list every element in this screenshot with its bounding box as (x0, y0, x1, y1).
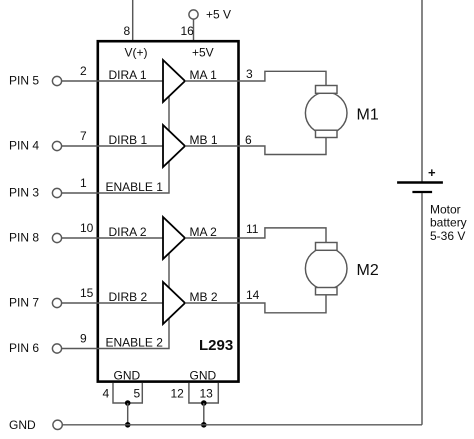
svg-text:M1: M1 (357, 107, 379, 124)
svg-text:DIRB 1: DIRB 1 (109, 133, 148, 147)
motor M2 brush tab top (316, 243, 338, 251)
motor M1 brush tab bottom (316, 130, 338, 137)
wire MB2 output (185, 302, 239, 304)
wire pin16 to +5V terminal (193, 19, 195, 41)
svg-text:10: 10 (80, 221, 94, 235)
svg-text:V(+): V(+) (125, 46, 148, 60)
svg-text:DIRA 1: DIRA 1 (109, 68, 147, 82)
svg-text:PIN 4: PIN 4 (9, 139, 39, 153)
svg-text:+: + (428, 165, 436, 180)
svg-text:5: 5 (134, 387, 141, 401)
wire ground bus (62, 424, 422, 426)
motor M2 body (305, 248, 347, 290)
svg-text:MA 1: MA 1 (190, 68, 218, 82)
junction dot staple2 on bus (201, 422, 207, 428)
terminal +5V circle (189, 10, 198, 19)
svg-text:GND: GND (9, 418, 36, 432)
svg-text:L293: L293 (199, 337, 233, 354)
svg-text:PIN 5: PIN 5 (9, 74, 39, 88)
svg-text:9: 9 (80, 332, 87, 346)
svg-text:2: 2 (80, 64, 87, 78)
wire staple1 to ground bus (127, 403, 129, 425)
buffer amplifier 1 (DIRA1) (163, 60, 185, 102)
wire MA2 output (185, 237, 239, 239)
svg-text:3: 3 (246, 67, 253, 81)
battery BT1 negative plate (412, 191, 432, 193)
wire GND staple pins 12-13 (189, 383, 218, 403)
svg-text:14: 14 (246, 288, 260, 302)
svg-text:battery: battery (430, 216, 467, 230)
wire output pin 3 to motor M1 (239, 71, 326, 86)
svg-text:PIN 6: PIN 6 (9, 341, 39, 355)
motor M1 body (305, 92, 347, 134)
svg-text:PIN 7: PIN 7 (9, 296, 39, 310)
junction dot staple1 (125, 400, 131, 406)
junction dot staple1 on bus (125, 422, 131, 428)
svg-text:ENABLE 2: ENABLE 2 (106, 336, 164, 350)
wire DIRA2 input (62, 237, 163, 239)
svg-text:+5 V: +5 V (206, 8, 231, 22)
svg-text:16: 16 (181, 24, 195, 38)
wire GND staple pins 4-5 (113, 383, 142, 403)
wire pin8 supply V(+) vertical (132, 0, 134, 41)
wire output pin 11 to motor M2 (239, 228, 326, 244)
svg-text:M2: M2 (357, 262, 379, 279)
wire ENABLE 1 (62, 95, 169, 193)
svg-text:MA 2: MA 2 (190, 225, 218, 239)
svg-text:15: 15 (80, 286, 94, 300)
svg-text:PIN 3: PIN 3 (9, 186, 39, 200)
svg-text:7: 7 (80, 129, 87, 143)
wire battery negative lead (421, 193, 423, 425)
svg-text:GND: GND (114, 369, 141, 383)
buffer amplifier 3 (DIRA2) (163, 217, 185, 259)
svg-text:13: 13 (200, 387, 214, 401)
svg-text:11: 11 (246, 222, 259, 236)
wire output pin 6 to motor M1 (239, 137, 326, 155)
wire DIRA1 input (62, 80, 163, 82)
motor M1 brush tab top (316, 86, 338, 94)
op-amp/IC U1 L293 box (98, 41, 239, 381)
buffer amplifier 2 (DIRB1) (163, 125, 185, 167)
wire battery positive lead (421, 0, 423, 183)
svg-text:1: 1 (80, 176, 87, 190)
svg-text:ENABLE 1: ENABLE 1 (106, 180, 164, 194)
svg-text:6: 6 (245, 133, 252, 147)
svg-text:MB 1: MB 1 (190, 133, 218, 147)
svg-text:DIRA 2: DIRA 2 (109, 225, 147, 239)
wire DIRB2 input (62, 302, 163, 304)
wire DIRB1 input (62, 145, 163, 147)
svg-text:Motor: Motor (430, 203, 461, 217)
svg-text:5-36 V: 5-36 V (430, 229, 465, 243)
svg-text:4: 4 (103, 387, 110, 401)
svg-text:MB 2: MB 2 (190, 290, 218, 304)
battery BT1 positive plate (397, 181, 443, 183)
svg-text:8: 8 (124, 24, 131, 38)
svg-text:12: 12 (171, 387, 185, 401)
motor M2 brush tab bottom (316, 288, 338, 295)
junction dot staple2 (201, 400, 207, 406)
wire staple2 to ground bus (203, 403, 205, 425)
wire MB1 output (185, 145, 239, 147)
wire MA1 output (185, 80, 239, 82)
svg-text:DIRB 2: DIRB 2 (109, 290, 148, 304)
buffer amplifier 4 (DIRB2) (163, 282, 185, 324)
svg-text:GND: GND (190, 369, 217, 383)
svg-text:PIN 8: PIN 8 (9, 231, 39, 245)
wire output pin 14 to motor M2 (239, 295, 326, 313)
wire ENABLE 2 (62, 252, 169, 349)
svg-text:+5V: +5V (192, 46, 214, 60)
